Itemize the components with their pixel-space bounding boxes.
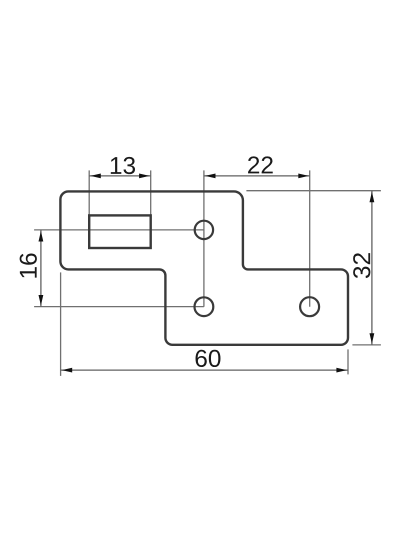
extension line lower row xyxy=(34,306,204,308)
dimension line 16 xyxy=(40,230,42,307)
dimension line 13 xyxy=(89,175,150,177)
arrow 22 right xyxy=(298,174,309,179)
arrow 32 bottom xyxy=(370,333,375,344)
label 13 xyxy=(111,157,135,174)
hole H3 xyxy=(300,297,319,316)
label 60 xyxy=(196,350,221,367)
dimension line 32 xyxy=(371,191,373,345)
arrow 16 top xyxy=(39,231,44,242)
arrow 13 right xyxy=(139,174,150,179)
label 22 xyxy=(248,156,273,173)
extension line 60 right xyxy=(347,349,349,374)
dimension line 22 xyxy=(204,175,310,177)
label 32 xyxy=(353,253,370,278)
slot xyxy=(89,215,150,248)
arrow 60 left xyxy=(62,368,73,373)
arrow 22 left xyxy=(205,174,216,179)
plate outline xyxy=(60,191,348,344)
extension line upper row xyxy=(34,229,204,231)
dimension line 60 xyxy=(61,369,348,371)
arrow 60 right xyxy=(336,368,347,373)
hole H2 xyxy=(195,297,214,316)
extension line 60 left xyxy=(60,272,62,376)
arrow 16 bottom xyxy=(39,295,44,306)
extension line 13 right xyxy=(150,170,152,215)
label 16 xyxy=(20,253,37,277)
arrow 13 left xyxy=(90,174,101,179)
extension line hole column B xyxy=(309,170,311,306)
extension line 32 top xyxy=(246,190,381,192)
hole H1 xyxy=(195,221,213,239)
extension line 32 bottom xyxy=(352,344,381,346)
arrow 32 top xyxy=(370,192,375,203)
extension line hole column A xyxy=(203,170,205,306)
extension line 13 left xyxy=(88,170,90,215)
